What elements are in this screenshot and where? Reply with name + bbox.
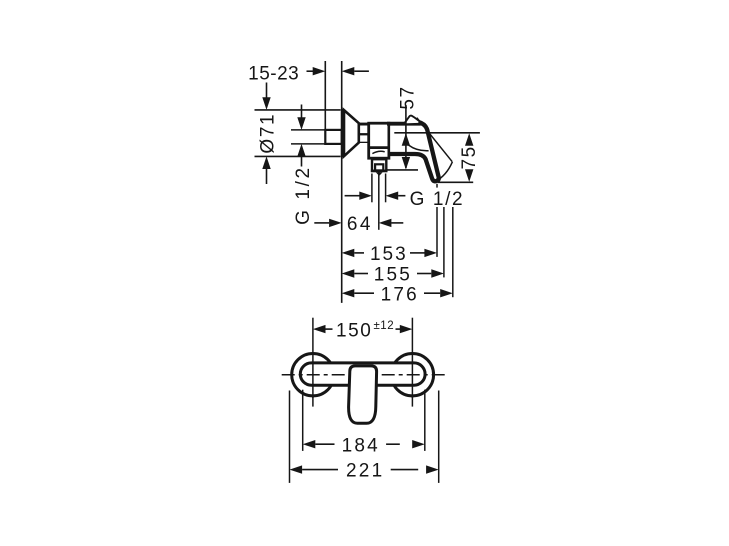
- centre line over left circle: [312, 352, 314, 398]
- shower outlet connector: [371, 159, 388, 176]
- horizontal dashed centre line: [282, 374, 449, 376]
- wall face extension line (runs down to 176 dim): [341, 61, 343, 303]
- dimension 57 (handle height): [397, 85, 418, 169]
- svg-text:153: 153: [370, 244, 408, 265]
- dimension G1/2 (outlet thread): [345, 174, 465, 211]
- front view centre line right: [411, 318, 413, 407]
- front view centre line left: [312, 318, 314, 407]
- dimension 150 ±12 (hole spacing): [313, 320, 413, 341]
- centre line over right circle: [411, 352, 413, 398]
- svg-text:75: 75: [459, 145, 480, 169]
- svg-text:176: 176: [381, 284, 419, 305]
- dimension 221 (overall width): [290, 391, 439, 483]
- right wall rosette (circle): [391, 354, 433, 396]
- extension line for 155: [443, 207, 445, 277]
- svg-text:57: 57: [397, 85, 418, 109]
- dimension Ø71 (escutcheon diameter): [255, 83, 341, 185]
- svg-text:64: 64: [347, 214, 373, 235]
- mixer body bar (stadium shape): [300, 363, 425, 385]
- escutcheon back flange (thick bar on wall face): [341, 109, 345, 157]
- dimension 184 (body width): [303, 390, 425, 457]
- dimension 15-23 (wall depth): [248, 63, 369, 84]
- dimension 153: [342, 244, 437, 265]
- valve body: [369, 123, 389, 158]
- svg-text:184: 184: [342, 435, 380, 456]
- svg-text:15-23: 15-23: [248, 63, 299, 84]
- 57/75 top reference line: [394, 132, 480, 134]
- handle lever (side profile): [387, 116, 452, 182]
- supply nipple (pipe stub in wall): [325, 130, 341, 144]
- label G1/2 (wall supply thread) with arrows: [291, 105, 325, 225]
- svg-text:G 1/2: G 1/2: [293, 165, 314, 224]
- wall surface extension line (left): [324, 61, 326, 131]
- svg-text:150: 150: [336, 320, 373, 341]
- handle tip extension stubs: [436, 184, 438, 188]
- svg-text:Ø71: Ø71: [258, 113, 279, 154]
- handle (front view, pointing down): [349, 366, 377, 423]
- outlet centre line: [378, 172, 380, 230]
- svg-text:221: 221: [346, 461, 384, 482]
- dimension 176: [342, 284, 453, 305]
- dimension 155: [342, 265, 444, 286]
- svg-text:155: 155: [374, 265, 412, 286]
- svg-text:G 1/2: G 1/2: [410, 189, 464, 210]
- escutcheon cone: [344, 110, 359, 156]
- extension line for 153: [436, 207, 438, 257]
- svg-text:±12: ±12: [374, 320, 395, 332]
- 57 bottom reference line: [388, 169, 419, 171]
- dimension 64 (wall to outlet centre): [314, 214, 403, 235]
- connection ports block (black with two white windows): [359, 123, 369, 143]
- dimension 75 (projection height): [438, 133, 480, 182]
- extension line for 176: [452, 207, 454, 297]
- left wall rosette (circle): [292, 354, 334, 396]
